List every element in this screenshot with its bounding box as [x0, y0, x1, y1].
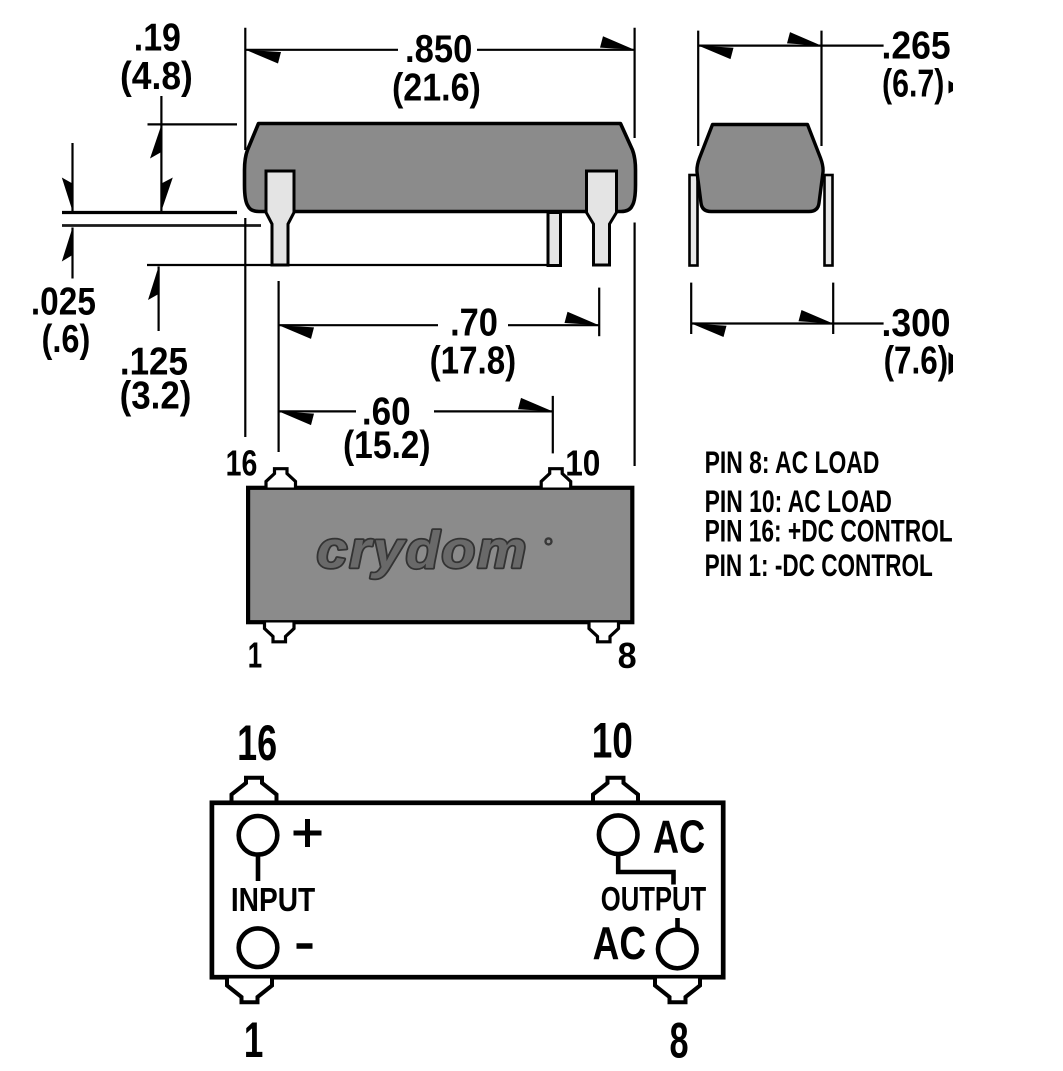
- AC top label: [653, 811, 705, 862]
- dimension .60 text: [362, 389, 411, 433]
- svg-text:OUTPUT: OUTPUT: [601, 880, 707, 919]
- pin 16 bump top view: [266, 469, 296, 488]
- pin 8 bump: [655, 979, 700, 1003]
- dimension .70 extension lines: [278, 281, 280, 452]
- wire pin-tip line: [147, 264, 547, 266]
- pin 10 bump top view: [541, 469, 571, 488]
- pin 8 bump top view: [589, 623, 619, 642]
- svg-text:(7.6): (7.6): [884, 338, 949, 382]
- svg-text:(3.2): (3.2): [120, 372, 192, 416]
- dimension .265 line: [698, 44, 883, 46]
- pin label 8: [618, 636, 637, 676]
- wire from pin 16 circle: [256, 852, 261, 881]
- pin left end view: [690, 175, 698, 266]
- dimension .70 line: [279, 324, 438, 326]
- wire right extension line x=634.6: [633, 28, 635, 138]
- pin 10 circle: [599, 815, 638, 854]
- pin label 10: [592, 713, 633, 769]
- wire .300 extension lines: [690, 283, 692, 334]
- plus sign: [294, 831, 322, 836]
- svg-text:(17.8): (17.8): [430, 338, 517, 382]
- pin label 16: [237, 716, 277, 771]
- svg-text:8: 8: [669, 1013, 688, 1069]
- svg-text:.265: .265: [882, 23, 951, 67]
- dimension .19 text: [134, 15, 181, 59]
- AC bottom label: [593, 917, 646, 969]
- dimension .19 leader: [160, 96, 162, 211]
- INPUT label: [231, 881, 315, 919]
- pin 8 side view: [587, 171, 617, 265]
- svg-text:crydom: crydom: [317, 521, 529, 579]
- svg-text:16: 16: [237, 716, 277, 771]
- dimension .300 text: [882, 300, 951, 344]
- svg-text:16: 16: [226, 443, 258, 483]
- pin label 16: [226, 443, 258, 483]
- pin 1 bump: [227, 979, 272, 1003]
- relay body side view: [245, 124, 636, 212]
- svg-text:8: 8: [618, 636, 637, 676]
- svg-text:PIN 16: +DC CONTROL: PIN 16: +DC CONTROL: [705, 513, 953, 548]
- svg-text:10: 10: [565, 444, 600, 484]
- wire body-top extension line: [148, 123, 238, 125]
- pin label 10: [565, 444, 600, 484]
- pin list line 1: [705, 445, 880, 480]
- wire stub to pin 8 circle: [675, 918, 680, 931]
- SCHEMATIC: [212, 713, 723, 1069]
- wire from pin 10 circle: [618, 852, 673, 885]
- svg-text:INPUT: INPUT: [231, 881, 315, 919]
- OUTPUT label: [601, 880, 707, 919]
- pin label 1: [244, 1013, 263, 1069]
- dimension .265 text: [882, 23, 951, 67]
- svg-text:10: 10: [592, 713, 633, 769]
- logo trademark dot: [546, 538, 552, 544]
- svg-text:1: 1: [244, 1013, 263, 1069]
- pin 1 circle: [239, 928, 278, 967]
- pin 16 circle: [239, 816, 278, 855]
- minus sign: [297, 943, 313, 949]
- pin list line 2: [705, 483, 892, 518]
- wire standoff line: [62, 224, 261, 227]
- pin 10 side view: [548, 213, 561, 266]
- svg-text:(6.7): (6.7): [882, 62, 944, 106]
- crydom logo: [317, 521, 529, 579]
- pin 16 bump: [232, 778, 277, 802]
- svg-text:PIN 8: AC LOAD: PIN 8: AC LOAD: [705, 445, 880, 480]
- svg-text:(15.2): (15.2): [343, 423, 431, 467]
- END VIEW: [690, 23, 954, 382]
- TOP VIEW: [226, 443, 637, 676]
- relay body top view: [248, 488, 632, 622]
- PIN LIST: [705, 445, 953, 583]
- dimension .125 arrow: [158, 267, 160, 332]
- dimension .850 line: [245, 49, 398, 51]
- svg-text:1: 1: [248, 635, 262, 675]
- svg-text:.850: .850: [405, 27, 472, 70]
- svg-text:AC: AC: [653, 811, 705, 862]
- scan artifact mark: [949, 81, 954, 94]
- dimension .60 line: [279, 410, 356, 412]
- pin 1 bump top view: [265, 623, 295, 642]
- dimension .025 arrows: [71, 143, 73, 211]
- dimension .300 line: [691, 322, 883, 324]
- relay body end view: [697, 125, 823, 212]
- svg-text:(21.6): (21.6): [392, 65, 481, 109]
- pin 16/1 side view: [266, 171, 294, 265]
- dimension .125 text: [120, 339, 188, 383]
- wire seating plane line: [62, 211, 237, 214]
- SIDE VIEW: [31, 15, 636, 466]
- pin label 1: [248, 635, 262, 675]
- pin list line 4: [705, 547, 933, 583]
- schematic body rectangle: [212, 803, 723, 977]
- dimension .850 text: [405, 27, 472, 70]
- wire .265 extension lines: [697, 31, 699, 146]
- pin 8 circle: [658, 930, 697, 969]
- pin 10 bump: [593, 778, 638, 802]
- wire left extension line x=245: [244, 28, 246, 150]
- svg-text:PIN 1: -DC CONTROL: PIN 1: -DC CONTROL: [705, 547, 933, 583]
- svg-text:AC: AC: [593, 917, 646, 969]
- svg-text:(.6): (.6): [42, 317, 91, 360]
- pin label 8: [669, 1013, 688, 1069]
- scan artifact mark: [949, 352, 954, 375]
- svg-text:(4.8): (4.8): [120, 53, 193, 97]
- pin right end view: [825, 175, 833, 266]
- dimension .60 extension line: [552, 396, 554, 454]
- dimension .025 text: [31, 279, 96, 323]
- dimension .70 text: [450, 301, 498, 344]
- pin list line 3: [705, 513, 953, 548]
